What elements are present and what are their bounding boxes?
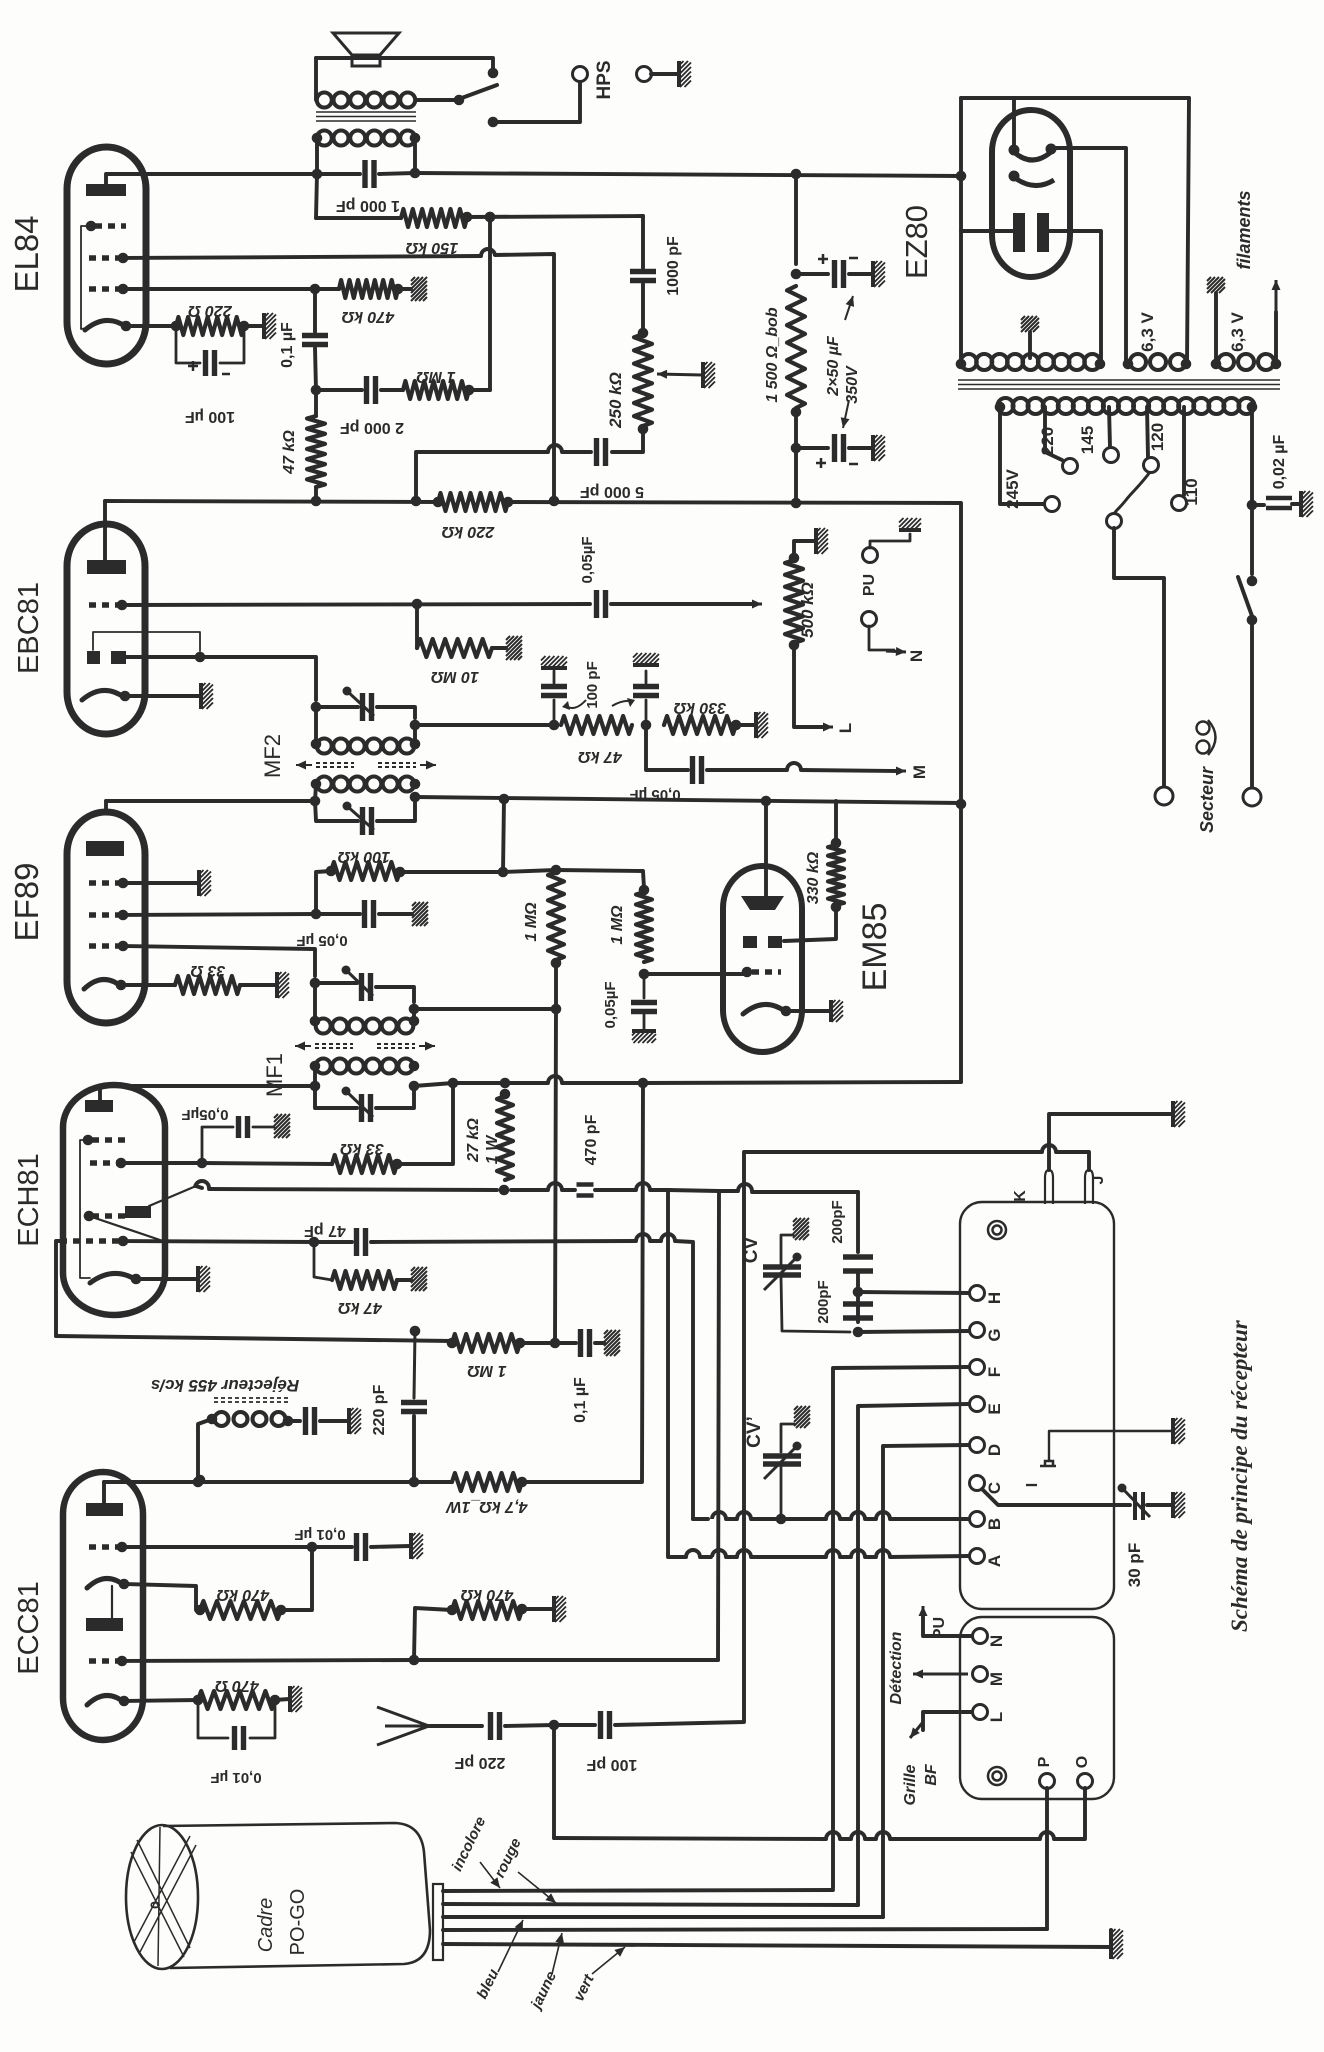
tube EL84 envelope — [67, 147, 146, 364]
svg-text:5 000 pF: 5 000 pF — [580, 483, 644, 500]
EF89 g3 pin — [118, 878, 129, 889]
ECH81 triode grid — [92, 1213, 125, 1218]
junction filter cap 1 — [791, 269, 802, 280]
svg-text:0,02 µF: 0,02 µF — [1271, 434, 1288, 489]
capacitor 1000 pF tone — [630, 272, 656, 281]
hop osc over B+ riser — [636, 1183, 650, 1190]
EZ80 cathode pin — [1009, 171, 1020, 182]
ECC81 grid 1 — [89, 1544, 119, 1549]
svg-text:220 kΩ: 220 kΩ — [441, 523, 495, 540]
cap1 minus — [849, 257, 858, 260]
MF2 core arrow left — [296, 761, 312, 770]
resistor 47 kOhm osc — [332, 1271, 397, 1289]
svg-text:CV’: CV’ — [744, 1416, 765, 1448]
MF1 core arrow left — [295, 1042, 311, 1051]
contact I — [1040, 1461, 1056, 1466]
MF1 sec left — [310, 1016, 321, 1027]
ECH81 g1 pin — [118, 1236, 129, 1247]
EBC81 diode 2 — [111, 651, 126, 664]
junction 27k top — [500, 1089, 511, 1100]
MF1 pri right — [409, 1061, 420, 1072]
junction AGC bottom — [550, 1338, 561, 1349]
HT secondary right — [1095, 359, 1106, 370]
mains switch lever — [1238, 577, 1252, 616]
wire tap 120 — [1147, 407, 1148, 457]
wire ECC81 a2 lead — [111, 1586, 113, 1618]
hop osc over AGC riser — [548, 1183, 562, 1190]
heater winding left — [1123, 359, 1134, 370]
EM85 target — [741, 896, 784, 910]
wire grid rail 3 — [675, 1241, 693, 1519]
svg-text:PO-GO: PO-GO — [287, 1889, 309, 1956]
wire CV1 gnd — [781, 1235, 793, 1266]
terminal stub K — [1045, 1170, 1053, 1204]
ground at 470k grid — [411, 277, 427, 301]
EZ80 heater bar 1 — [1013, 213, 1025, 252]
wire grid-leak down — [314, 390, 318, 416]
wire EF89 g1 rail — [123, 946, 315, 976]
primary right end — [1247, 402, 1258, 413]
wire EM85 grid — [744, 972, 747, 974]
svg-text:PU: PU — [931, 1617, 948, 1639]
MF1 secondary coil — [316, 1019, 414, 1034]
svg-text:EBC81: EBC81 — [13, 582, 45, 674]
ground at pot wiper — [703, 362, 715, 388]
cap2 plus — [816, 458, 826, 468]
ground 0,1uF agc — [604, 1330, 620, 1356]
junction B+ 643 — [638, 1078, 649, 1089]
capacitor 0,05 uF em — [631, 1003, 657, 1012]
wire primary right leg — [413, 138, 417, 173]
wire A rail 4 — [751, 1555, 826, 1559]
svg-text:6,3 V: 6,3 V — [1138, 311, 1157, 351]
MF2 pri coil right — [410, 779, 421, 790]
junction g1 node — [310, 284, 321, 295]
svg-text:0,05µF: 0,05µF — [579, 537, 596, 584]
arrow N PU — [919, 1606, 928, 1630]
junction MF1 pri left — [310, 1081, 321, 1092]
wire EM85 grid rail — [644, 972, 744, 976]
capacitor 0,05 uF grid — [597, 590, 606, 618]
EZ80 anode 1 pin — [1009, 145, 1020, 156]
wire ECC plate rail — [104, 1480, 452, 1484]
arrow to cap1 — [845, 296, 854, 320]
ground at cap1 — [873, 261, 885, 287]
junction MF2 pri left — [310, 796, 321, 807]
EF89 g1 pin — [118, 941, 129, 952]
svg-text:1 W: 1 W — [484, 1134, 501, 1164]
wire 1000pF to HT rail — [379, 173, 415, 174]
hop A over E line — [851, 1550, 865, 1557]
resistor 47 kOhm — [307, 416, 325, 487]
junction pot500 bottom — [789, 640, 800, 651]
potentiometer 250 kOhm — [634, 334, 652, 426]
ECC81 anode 1 — [86, 1503, 123, 1516]
tube EBC81 envelope — [67, 524, 145, 734]
CV1 arrow — [764, 1253, 802, 1291]
EF89 anode — [86, 841, 124, 856]
terminal 145 — [1104, 448, 1119, 463]
resistor 33 kOhm — [332, 1155, 397, 1173]
antenna symbol — [377, 1707, 429, 1745]
junction g2b node — [409, 1655, 420, 1666]
ground K — [1173, 1101, 1185, 1127]
wire A rail 6 — [865, 1555, 876, 1559]
junction diode out — [195, 652, 206, 663]
hop A over ECC riser — [712, 1550, 726, 1557]
EM85 grid — [752, 969, 781, 974]
wire AF grid rail — [122, 604, 590, 605]
ECC81 g2 pin — [117, 1656, 128, 1667]
wire C to 30pF — [982, 1489, 1130, 1505]
primary left end — [995, 402, 1006, 413]
wire EF89 plate rail — [106, 799, 315, 803]
junction B+ at screen tap — [499, 794, 510, 805]
rejecteur core — [214, 1398, 288, 1402]
trimmer arrow MF1 bottom — [342, 1087, 374, 1118]
wire O rail 3 — [840, 1837, 851, 1841]
resistor 33 Ohm — [175, 976, 240, 994]
mains switch bottom contact — [1247, 615, 1258, 626]
hop O over E line — [851, 1832, 865, 1839]
svg-text:100 kΩ: 100 kΩ — [337, 848, 390, 865]
wire 1Mb to cap — [643, 974, 646, 998]
junction MF1 pri right — [409, 1081, 420, 1092]
wire N to PU — [923, 1614, 972, 1636]
wire AGC riser down — [555, 1009, 556, 1343]
ground CV1 — [793, 1218, 809, 1240]
wire HPS right to ground — [651, 72, 678, 76]
cadre body — [163, 1823, 430, 1968]
svg-text:250 kΩ: 250 kΩ — [606, 372, 625, 429]
wire osc grid rail — [123, 1241, 314, 1242]
ECH81 g3 pin — [83, 1135, 94, 1146]
wire MF1 trimmer right — [376, 987, 414, 1002]
wire 470kc gnd — [522, 1607, 553, 1611]
EBC81 diode bracket — [93, 632, 200, 651]
EL84 grid g1 — [89, 286, 120, 291]
hop O over P wire — [1040, 1832, 1054, 1839]
wire screen bypass up — [202, 1127, 233, 1163]
wire ECH81 screen rail — [121, 1161, 202, 1165]
terminal B — [970, 1512, 985, 1527]
resistor 10 MOhm — [417, 639, 492, 657]
pot wiper arrow — [657, 370, 702, 379]
wire B+ rail low 4 — [453, 1081, 505, 1085]
cadre winding band — [131, 1827, 196, 1966]
potentiometer 500 kOhm — [785, 560, 803, 643]
junction 5000pF at bus — [411, 496, 422, 507]
junction plate node — [312, 169, 323, 180]
svg-text:30 pF: 30 pF — [1125, 1543, 1144, 1587]
wire AF out — [646, 725, 688, 770]
wire grid rail 2 — [650, 1239, 661, 1243]
svg-text:EL84: EL84 — [8, 215, 45, 292]
junction 200pF mid — [853, 1287, 864, 1298]
wire ECC g2 rail — [122, 1660, 414, 1661]
wire speaker top rail — [316, 58, 493, 68]
ECC81 g1 pin — [117, 1542, 128, 1553]
wire ECC81 plate lead — [102, 1482, 106, 1503]
wire AGC to B+ rail — [503, 799, 504, 872]
ground em cap — [632, 1031, 656, 1043]
tube EM85 envelope — [723, 866, 802, 1052]
transformer T1 core — [316, 112, 416, 121]
arrow to N — [886, 647, 906, 656]
terminal stub J — [1085, 1170, 1093, 1204]
wire primary right leg — [1250, 407, 1254, 505]
resistor 1 MOhm osc — [452, 1334, 520, 1352]
wire A rail 5 — [840, 1555, 851, 1559]
switch S1 top contact — [488, 68, 499, 79]
EL84 g2 pin — [118, 253, 129, 264]
ground cap a — [541, 656, 567, 668]
wire 220pF riser — [414, 1331, 415, 1398]
resistor 100 kOhm — [331, 862, 400, 880]
wire cadre incolore — [443, 1890, 833, 1891]
ground cap b — [633, 653, 659, 665]
svg-text:EF89: EF89 — [8, 863, 45, 942]
wire ECH81 plate lead — [100, 1086, 315, 1100]
wire B+ rail low — [643, 1082, 961, 1083]
svg-text:27 kΩ: 27 kΩ — [465, 1118, 482, 1163]
wire ech bypass to gnd — [253, 1126, 274, 1129]
junction MF1 sec top — [310, 978, 321, 989]
junction 33k right — [392, 1159, 403, 1170]
hop B over F line — [826, 1512, 840, 1519]
EBC81 grid pin — [117, 600, 128, 611]
capacitor 0,01 uF k2 — [235, 1726, 244, 1750]
wire EL84 g1 rail — [123, 287, 315, 291]
junction 220pF bottom — [409, 1477, 420, 1488]
wire AF after hop — [801, 770, 898, 771]
wire filter resistor top — [794, 174, 798, 264]
wire 0.01b right leg — [250, 1700, 275, 1738]
svg-text:47 kΩ: 47 kΩ — [578, 748, 623, 765]
svg-text:0,05µF: 0,05µF — [602, 982, 619, 1029]
wire 47k to bus — [314, 487, 318, 501]
hop grid over riser A — [661, 1234, 675, 1241]
variable capacitor CV rf — [763, 1456, 801, 1464]
svg-text:0,1 µF: 0,1 µF — [279, 322, 296, 368]
EF89 g2 — [89, 912, 120, 917]
wire cap node1 up — [553, 700, 556, 725]
wire 0.02uF to ground — [1292, 502, 1300, 506]
terminal E — [970, 1397, 985, 1412]
ECH81 cathode — [90, 1273, 138, 1283]
junction 220R right — [239, 321, 250, 332]
ground ech bypass — [274, 1114, 290, 1138]
svg-text:200pF: 200pF — [815, 1280, 832, 1323]
junction 470R left — [193, 1695, 204, 1706]
ECH81 g3 — [92, 1137, 128, 1142]
ground EBC81 cathode — [201, 683, 213, 709]
terminal 245V — [1045, 497, 1060, 512]
block eyelet top — [988, 1221, 1006, 1239]
wire em cap to gnd — [643, 1015, 646, 1030]
junction bus at filter — [791, 498, 802, 509]
capacitor 47 pF — [357, 1228, 366, 1256]
cadre connector — [433, 1884, 443, 1960]
EBC81 anode — [87, 560, 126, 574]
switch S1 lever — [459, 85, 497, 99]
wire to 0.02uF — [1252, 503, 1264, 507]
wire MF1 pri left leg — [313, 1066, 317, 1086]
ground 47k osc — [411, 1267, 427, 1291]
wire MF2 sec right leg — [413, 725, 417, 744]
wire MF1 pri trimmer right — [376, 1086, 414, 1108]
wire 330k em top — [834, 801, 838, 843]
capacitor 0,05 uF ech — [239, 1116, 248, 1138]
junction MF1 AGC out — [409, 1004, 420, 1015]
ECH81 triode anode — [125, 1206, 151, 1218]
wire A rail 7 — [890, 1556, 968, 1557]
wire B+ bus right — [508, 502, 961, 1082]
svg-text:100 pF: 100 pF — [586, 1756, 637, 1773]
wire feedback riser — [488, 217, 492, 390]
wire CV1 to G — [781, 1277, 850, 1332]
leader jaune — [552, 1933, 564, 1974]
junction 470kc left — [447, 1605, 458, 1616]
junction g2 bypass — [311, 909, 322, 920]
ECH81 tg pin — [84, 1211, 95, 1222]
svg-text:P: P — [1036, 1756, 1053, 1767]
svg-text:220 pF: 220 pF — [454, 1754, 505, 1771]
tube ECC81 envelope — [63, 1472, 143, 1740]
transformer HT secondary — [961, 354, 1101, 370]
wire EM85 cathode — [786, 1009, 830, 1013]
MF1 sec right — [409, 1016, 420, 1027]
terminal HPS left — [573, 67, 588, 82]
hop B+ over AGC riser — [548, 1076, 562, 1083]
svg-text:Cadre: Cadre — [255, 1898, 277, 1952]
tube EF89 envelope — [67, 812, 145, 1023]
trimmer MF1 bottom — [362, 1094, 371, 1122]
svg-text:1000 pF: 1000 pF — [665, 236, 682, 296]
terminal PU b — [862, 612, 877, 627]
100uF minus sign — [222, 373, 230, 376]
wire 5000pF to corner — [416, 452, 548, 501]
cap2 minus — [849, 463, 858, 466]
wire 470kb2 riser — [414, 1608, 452, 1660]
junction B+ detector feed — [956, 799, 967, 810]
svg-text:EM85: EM85 — [856, 903, 894, 992]
wire 470k-b riser — [281, 1549, 312, 1610]
wire MF1 pri trimmer — [315, 1086, 357, 1108]
svg-text:220 Ω: 220 Ω — [188, 302, 233, 319]
junction 220R left — [171, 321, 182, 332]
EL84 anode — [86, 184, 126, 196]
filament winding 6,3V — [1218, 354, 1274, 370]
EM85 cathode pin — [781, 1006, 792, 1017]
wire osc grid left — [56, 1241, 60, 1336]
ECH81 cathode pin — [131, 1274, 142, 1285]
terminal M — [973, 1667, 988, 1682]
svg-text:1 000 pF: 1 000 pF — [336, 197, 400, 214]
wire B rail 7 — [890, 1517, 968, 1521]
capacitor 0,1 uF agc — [581, 1329, 590, 1357]
svg-text:33 Ω: 33 Ω — [190, 962, 225, 979]
ECH81 triode anode lead — [149, 1186, 196, 1206]
wire P rail — [443, 1929, 1047, 1930]
ground 470R — [290, 1686, 302, 1712]
wire EZ80 anode drop — [1012, 98, 1016, 146]
hop over screen riser — [548, 445, 562, 452]
wire 47k osc gnd — [397, 1278, 411, 1282]
terminal selector — [1107, 514, 1122, 529]
wire EZ80 anode 2 lead — [1051, 148, 1126, 364]
svg-text:F: F — [985, 1367, 1004, 1377]
svg-text:Détection: Détection — [888, 1631, 905, 1704]
svg-text:220 pF: 220 pF — [371, 1384, 388, 1435]
svg-text:D: D — [985, 1444, 1004, 1456]
capacitor 0,01 uF grid — [357, 1533, 366, 1561]
junction grid1 node — [307, 1542, 318, 1553]
svg-text:0: 0 — [147, 1901, 163, 1909]
trimmer MF1 top — [362, 973, 371, 1001]
junction primary right — [410, 133, 421, 144]
hop B over E line — [851, 1512, 865, 1519]
junction 100k right — [395, 867, 406, 878]
junction 1M b bottom — [639, 969, 650, 980]
wire MF2 trimmer top branch — [316, 705, 358, 709]
hop osc over J riser — [738, 1184, 752, 1191]
resistor 470 Ohm — [198, 1691, 275, 1709]
capacitor 470 pF — [577, 1185, 594, 1196]
svg-text:47 kΩ: 47 kΩ — [338, 1299, 383, 1316]
ground HT center tap — [1021, 316, 1039, 332]
svg-text:120: 120 — [1148, 423, 1167, 451]
svg-text:0,05 µF: 0,05 µF — [629, 786, 680, 803]
resistor 150 kOhm — [401, 209, 467, 227]
tube EZ80 envelope — [992, 110, 1070, 277]
wire 200pF mid — [856, 1272, 860, 1322]
arrow to cap2 — [841, 400, 850, 428]
EM85 plate 2 — [768, 936, 782, 948]
wire 33k to riser — [397, 1083, 453, 1164]
trimmer arrow MF2 top — [343, 687, 375, 717]
terminal H — [970, 1286, 985, 1301]
wire tap 220 — [1045, 407, 1062, 460]
arrow filaments — [1272, 280, 1281, 312]
ECH81 g2g4 — [90, 1160, 118, 1165]
wire AGC rail right — [503, 870, 556, 872]
wire tap 245V — [1000, 407, 1045, 504]
wire 220R to ground — [244, 324, 263, 328]
EL84 g3 pin — [86, 221, 97, 232]
ground at 33R — [277, 972, 289, 998]
svg-text:E: E — [985, 1403, 1004, 1414]
svg-text:2 000 pF: 2 000 pF — [340, 419, 404, 436]
hop O over D line — [876, 1832, 890, 1839]
junction 330k right — [731, 720, 742, 731]
capacitor rejecteur — [306, 1407, 315, 1435]
svg-text:33 kΩ: 33 kΩ — [340, 1140, 384, 1157]
wire bypass to gnd — [379, 912, 412, 916]
wire MF2 pri trimmer right — [377, 797, 415, 821]
hop A over 693 — [686, 1550, 700, 1557]
junction g2 at bus — [549, 496, 560, 507]
wire pot bottom to 5000pF — [612, 429, 643, 452]
capacitor 1000 pF — [365, 160, 374, 188]
junction AGC line — [551, 1004, 562, 1015]
rejecteur coil — [215, 1412, 286, 1426]
svg-text:G: G — [985, 1328, 1004, 1341]
terminal 120 — [1144, 458, 1159, 473]
wire 100k to AGC node — [400, 870, 503, 874]
EL84 cathode — [85, 320, 128, 330]
svg-text:1 500 Ω_bob: 1 500 Ω_bob — [764, 307, 781, 402]
